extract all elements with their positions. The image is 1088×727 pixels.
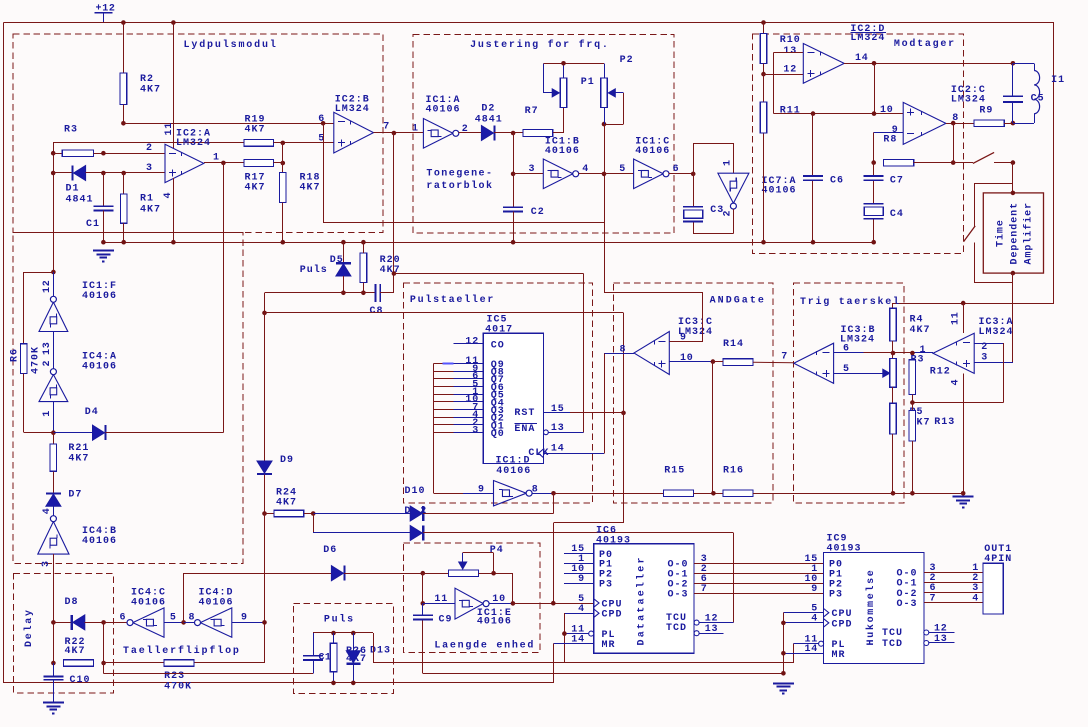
label CPD	[602, 610, 623, 621]
label IC2:D LM324	[850, 24, 886, 44]
label TCD 9	[882, 639, 903, 650]
label D8	[65, 597, 79, 608]
wire y292 to C8	[265, 292, 376, 294]
label IC9 40193	[827, 533, 862, 554]
label Laengde enhed	[434, 639, 535, 651]
node dot P4 left	[421, 571, 426, 576]
op-amp IC2:D	[803, 44, 844, 84]
svg-text:Pulstaeller: Pulstaeller	[410, 294, 495, 306]
svg-text:D1: D1	[66, 184, 80, 195]
node dot R13 bottom	[910, 491, 915, 496]
wire PL9 riser	[793, 644, 795, 663]
label R22 4K7	[65, 637, 86, 657]
op-amp IC3:A	[933, 333, 974, 373]
wire D4 left lead	[53, 432, 92, 434]
svg-text:C9: C9	[439, 615, 453, 626]
svg-text:RST: RST	[514, 408, 535, 419]
label CPU 9	[832, 609, 853, 620]
svg-text:LM324: LM324	[951, 95, 986, 106]
label R7	[525, 106, 539, 117]
wire ENA pin	[548, 432, 583, 434]
label C6	[830, 175, 844, 186]
node dot pin6 fb	[321, 121, 326, 126]
wire pin5 line	[604, 173, 634, 175]
label C4	[890, 209, 904, 220]
inverter IC1:F	[39, 296, 68, 331]
wire P2 bottom lead	[604, 108, 606, 125]
label D10	[405, 486, 426, 497]
svg-text:40106: 40106	[762, 186, 797, 197]
label R20 4K7	[380, 255, 401, 276]
wire CPD wedge	[594, 609, 599, 617]
node dot C6 rail	[811, 240, 816, 245]
wire pin5 line	[164, 622, 184, 624]
svg-text:13: 13	[42, 341, 53, 355]
wire pin3 line	[85, 172, 165, 174]
wire pin11 link	[422, 573, 424, 603]
wire out1 line4	[924, 602, 983, 604]
label pin 6	[318, 114, 325, 125]
svg-text:R13: R13	[934, 417, 955, 428]
wire R17 right lead	[274, 162, 283, 164]
wire out1 line1	[924, 572, 983, 574]
wire pin11 column IC3A	[963, 303, 965, 333]
wire pin5 arrow	[834, 369, 890, 377]
label pin 3 IC1:B	[529, 164, 536, 175]
label pin 2 IC1:A	[462, 124, 469, 135]
label ANDGate	[710, 296, 766, 307]
label pin 4 CPD	[578, 604, 585, 615]
wire D2 to node	[494, 132, 523, 134]
wire R24 right lead	[304, 513, 313, 515]
inverter IC4:D	[195, 608, 232, 637]
wire D8 left lead	[53, 622, 72, 624]
svg-text:5: 5	[170, 613, 177, 624]
svg-text:R11: R11	[780, 106, 801, 117]
wire osc up loop	[693, 143, 733, 174]
label C10	[70, 675, 91, 686]
wire R10 bottom	[763, 63, 765, 74]
wire rail bottom	[103, 242, 873, 244]
svg-text:R23: R23	[164, 671, 185, 682]
wire P2 wiper bottom	[604, 124, 624, 126]
resistor R23	[164, 660, 194, 667]
label CPD 9	[832, 619, 853, 630]
svg-text:40193: 40193	[596, 536, 631, 547]
label P1	[581, 77, 595, 88]
node dot pin11 IC3A	[961, 301, 966, 306]
svg-text:R16: R16	[723, 466, 744, 477]
svg-text:4K7: 4K7	[910, 325, 931, 336]
svg-text:13: 13	[705, 624, 719, 635]
node dot R22 right	[101, 661, 106, 666]
diode D6	[331, 566, 344, 581]
label IC1:F 40106	[82, 281, 117, 302]
label D2 4841	[475, 104, 503, 126]
wire R14 leads	[713, 362, 794, 363]
node dot gnd y493	[961, 491, 966, 496]
label IC4:D 40106	[199, 588, 234, 609]
label pin 9 IC1D	[478, 485, 485, 496]
svg-text:5: 5	[619, 164, 626, 175]
wire CPD line	[564, 613, 593, 663]
label pin 11 IC3A	[951, 311, 962, 325]
node dot D13 bottom	[351, 681, 356, 686]
label pin 13 TCD	[705, 624, 719, 635]
resistor R21	[50, 444, 57, 471]
wire puls right drop	[373, 633, 375, 663]
svg-text:D: D	[404, 506, 411, 517]
connector OUT1 4PIN box	[983, 563, 1003, 614]
svg-text:Taellerflipflop: Taellerflipflop	[123, 645, 241, 657]
inverter IC1:A	[423, 119, 458, 149]
node dot pin10	[872, 111, 877, 116]
svg-text:40106: 40106	[477, 616, 512, 627]
wire line2 east	[423, 673, 784, 675]
svg-text:Lydpulsmodul: Lydpulsmodul	[184, 39, 278, 51]
wire R7 right	[553, 132, 564, 134]
node dot R18 top	[281, 161, 286, 166]
wire IC3:C out	[604, 353, 634, 453]
svg-text:D8: D8	[65, 597, 79, 608]
svg-text:10: 10	[880, 105, 894, 116]
diode D9	[257, 461, 272, 474]
node dot MR9	[781, 651, 786, 656]
wire R6 top link	[24, 272, 54, 344]
svg-text:D7: D7	[68, 490, 82, 501]
label pin 12 TCU9	[934, 624, 948, 635]
wire C6 stem	[812, 114, 814, 243]
resistor R26	[330, 643, 337, 672]
wire R15-R16	[694, 493, 723, 495]
wire fb pin6 down	[323, 123, 325, 223]
svg-text:40106: 40106	[131, 597, 166, 608]
node dot pin5 fb	[281, 141, 286, 146]
svg-text:R1: R1	[140, 194, 154, 205]
module box Trig taerskel	[794, 283, 905, 503]
node dot CPD9	[781, 621, 786, 626]
wire IC2:C out	[946, 123, 974, 125]
svg-text:9: 9	[680, 333, 687, 344]
wire D13 stem	[353, 633, 355, 683]
capacitor C5	[1003, 63, 1023, 123]
wire R20 leads	[363, 242, 365, 293]
bubble TCD IC9	[924, 641, 929, 646]
wire R26 leads	[333, 633, 335, 683]
label pin 14	[855, 53, 869, 64]
wire CPD wedge 9	[824, 619, 829, 627]
node dot D1 left	[51, 171, 56, 176]
label R3	[64, 125, 78, 136]
svg-text:4: 4	[163, 192, 174, 199]
label pin 8	[952, 113, 959, 124]
svg-text:C5: C5	[1031, 94, 1045, 105]
wire C2 bottom	[513, 212, 515, 243]
wire R23 line	[104, 662, 265, 664]
ground C1	[93, 251, 114, 262]
svg-text:Amplifier: Amplifier	[1023, 202, 1035, 265]
capacitor C6	[803, 176, 823, 180]
label IC4:B 40106	[82, 526, 117, 547]
inverter IC1:E	[455, 588, 489, 619]
wire out riser	[512, 573, 514, 603]
wire left border	[3, 23, 5, 683]
inductor L1	[1013, 63, 1040, 123]
wire pin13 down	[773, 53, 775, 114]
label pin 11 IC1E	[434, 594, 448, 605]
label pin 13 2	[42, 341, 53, 366]
label pin 2 IC7:A	[723, 210, 734, 217]
resistor R16	[723, 490, 753, 497]
svg-text:TCU: TCU	[882, 628, 903, 639]
label out pins	[972, 563, 979, 605]
svg-text:O-3: O-3	[896, 599, 917, 610]
node dot R24 left	[262, 511, 267, 516]
label PL	[602, 630, 616, 641]
wire R21 top lead	[53, 433, 55, 444]
switch S1	[953, 152, 1013, 163]
module box Delay	[13, 574, 113, 693]
ic IC5 left pins	[434, 337, 505, 494]
wire x712 down	[712, 362, 714, 494]
label MR 9	[832, 650, 846, 661]
label D9	[280, 455, 294, 466]
node dot R22 left	[51, 661, 56, 666]
svg-text:7: 7	[781, 351, 788, 362]
node dot R8 left	[871, 160, 876, 165]
wire R13 bottom lead	[912, 441, 914, 493]
label pin 9	[892, 125, 899, 136]
wire C7 stem	[873, 163, 875, 243]
wire between gates	[53, 332, 55, 370]
label pin 1 IC2:A	[213, 153, 220, 164]
wire P2 top lead	[604, 63, 606, 78]
node dot IC1:E out	[511, 601, 516, 606]
node dot rail pin11	[171, 20, 176, 25]
node dot CPU junction	[551, 601, 556, 606]
node dot IC1:C out	[691, 172, 696, 177]
label pin 7 IC3B	[781, 351, 788, 362]
resistor R8	[883, 159, 913, 166]
ground trig	[953, 497, 974, 508]
node dot pin12 junction	[51, 270, 56, 275]
wire mid up to D6	[183, 573, 185, 622]
wire R2 column top	[123, 23, 125, 73]
node dot rail R2	[121, 20, 126, 25]
label P2	[620, 55, 634, 66]
label pin 15	[551, 404, 565, 415]
resistor R19	[244, 140, 273, 147]
svg-text:Justering for frq.: Justering for frq.	[470, 39, 610, 51]
svg-text:7: 7	[383, 122, 390, 133]
ground C10	[43, 703, 64, 714]
wire x313 drop	[313, 514, 315, 534]
label pin 10 IC3C	[680, 353, 694, 364]
node dot IC2:C out	[951, 121, 956, 126]
inverter IC1:D	[494, 481, 533, 506]
label Lydpulsmodul	[184, 39, 278, 51]
svg-text:Modtager: Modtager	[894, 38, 956, 50]
label R9	[979, 106, 993, 117]
svg-text:4: 4	[972, 593, 979, 604]
wire pin9 line	[874, 132, 904, 134]
resistor R9	[974, 120, 1004, 127]
svg-text:Trig taerskel: Trig taerskel	[800, 296, 901, 308]
label 470K	[31, 346, 42, 374]
svg-text:5: 5	[318, 134, 325, 145]
node dot R3 right	[101, 151, 106, 156]
svg-text:P3: P3	[599, 580, 613, 591]
label IC4:A 40106	[82, 352, 117, 373]
ic IC6 40193 box	[594, 544, 694, 653]
potentiometer P1	[543, 63, 567, 107]
op-amp IC2:B	[334, 112, 374, 153]
svg-text:D4: D4	[85, 407, 99, 418]
label Modtager	[894, 38, 956, 50]
node dot IC4D out	[262, 620, 267, 625]
wire D5 top lead	[343, 242, 345, 263]
wire R6 bottom link	[24, 374, 54, 433]
svg-text:C2: C2	[531, 207, 545, 218]
label RST	[514, 408, 535, 419]
capacitor C1	[93, 206, 113, 210]
svg-text:LM324: LM324	[850, 33, 885, 44]
label pin 11 IC2:A	[164, 122, 175, 136]
wire pin12 stub	[53, 272, 55, 297]
svg-text:6: 6	[120, 613, 127, 624]
wire bus O2	[694, 583, 824, 585]
wire line1 y663	[373, 662, 793, 664]
switch S2	[964, 226, 976, 242]
svg-text:4K7: 4K7	[245, 125, 266, 136]
node dot D8 right	[101, 620, 106, 625]
amplifier block TDA	[983, 193, 1043, 273]
svg-text:R15: R15	[664, 466, 685, 477]
wire PL line 9	[794, 643, 819, 645]
svg-text:R21: R21	[68, 443, 89, 454]
wire bypass lower	[974, 243, 1013, 284]
svg-text:P3: P3	[829, 590, 843, 601]
svg-text:LM324: LM324	[335, 104, 370, 115]
resistor R18	[280, 172, 287, 202]
svg-text:15: 15	[551, 404, 565, 415]
label pin 4 IC1:B	[582, 164, 589, 175]
wire pin11 line E	[423, 603, 455, 605]
inverter IC4:C	[127, 608, 164, 637]
label TCU 9	[882, 628, 903, 639]
node dot R12 top	[910, 351, 915, 356]
label C8	[370, 306, 384, 317]
svg-text:12: 12	[465, 337, 479, 348]
label pin 11 PL9	[804, 634, 818, 645]
label P4	[490, 545, 504, 556]
label Delay	[23, 608, 35, 647]
wire bus to pin9	[434, 493, 494, 495]
wire pin4 column	[173, 178, 175, 242]
label pin 13	[783, 46, 797, 57]
wire R18 top lead	[282, 163, 284, 172]
wire CPU wedge	[594, 599, 599, 607]
label Puls bottom	[324, 614, 355, 626]
wire right border	[1053, 23, 1055, 304]
wire R22 vert right	[103, 622, 105, 663]
module box Puls	[293, 603, 393, 693]
label pin 11 PL	[571, 624, 585, 635]
wire x623 vert	[623, 313, 625, 523]
node dot x264	[262, 311, 267, 316]
potentiometer P2	[601, 78, 624, 124]
wire puls top	[313, 632, 373, 634]
label pin 4 IC4B	[42, 507, 53, 514]
label OUT1 4PIN	[984, 544, 1012, 565]
svg-text:40106: 40106	[82, 291, 117, 302]
svg-text:14: 14	[551, 444, 565, 455]
capacitor C8	[375, 284, 380, 302]
wire out vert	[953, 123, 955, 163]
svg-text:3: 3	[472, 426, 479, 437]
wire fb vert	[282, 143, 284, 163]
label R23 470K	[164, 671, 192, 693]
resistor R10	[760, 34, 767, 64]
node dot R26 bottom	[331, 681, 336, 686]
wire CPU wedge 9	[824, 609, 829, 617]
svg-text:R12: R12	[930, 367, 951, 378]
svg-text:4K7: 4K7	[300, 183, 321, 194]
label pin 6 IC3B	[843, 344, 850, 355]
label IC5 4017	[485, 314, 513, 335]
label pin 9 IC3C	[680, 333, 687, 344]
bubble TCD IC6	[694, 631, 699, 636]
label D12 partial	[404, 506, 427, 517]
label pin 5 IC3B	[843, 364, 850, 375]
svg-text:R8: R8	[883, 135, 897, 146]
label pin 10 IC1E	[492, 594, 506, 605]
svg-text:11: 11	[164, 122, 175, 136]
svg-text:Puls: Puls	[324, 614, 355, 626]
wire R16 right	[753, 493, 963, 495]
svg-text:TCD: TCD	[882, 639, 903, 650]
svg-text:R6: R6	[10, 348, 21, 362]
svg-text:I1: I1	[1051, 75, 1065, 86]
svg-text:Datataeller: Datataeller	[636, 555, 648, 645]
resistor R2	[120, 73, 127, 105]
label pin 6 IC1:C	[673, 164, 680, 175]
inverter IC1:B	[543, 159, 578, 189]
wire bus O1	[694, 573, 824, 575]
svg-text:D5: D5	[330, 255, 344, 266]
resistor R6	[21, 344, 28, 374]
label pin 8 IC4D	[189, 613, 196, 624]
resistor R17	[244, 160, 273, 167]
resistor R15	[663, 490, 693, 497]
svg-text:1: 1	[42, 410, 53, 417]
resistor R11	[760, 102, 767, 133]
label R6	[10, 348, 21, 362]
wire TCU riser	[733, 533, 735, 623]
svg-text:Dependent: Dependent	[1009, 202, 1021, 265]
node dot tank bottom	[1011, 121, 1016, 126]
label IC1:A 40106	[426, 95, 461, 115]
svg-text:R14: R14	[723, 339, 744, 350]
label pin 8 IC3C	[620, 345, 627, 356]
wire TCD stub	[699, 633, 723, 635]
svg-text:TCD: TCD	[666, 623, 687, 634]
wire TDA out down	[1012, 273, 1014, 362]
wire IC1:E out	[489, 603, 513, 605]
wire IC1:A out	[458, 132, 481, 134]
node dot ena branch	[392, 271, 397, 276]
label pin 2	[146, 143, 153, 154]
